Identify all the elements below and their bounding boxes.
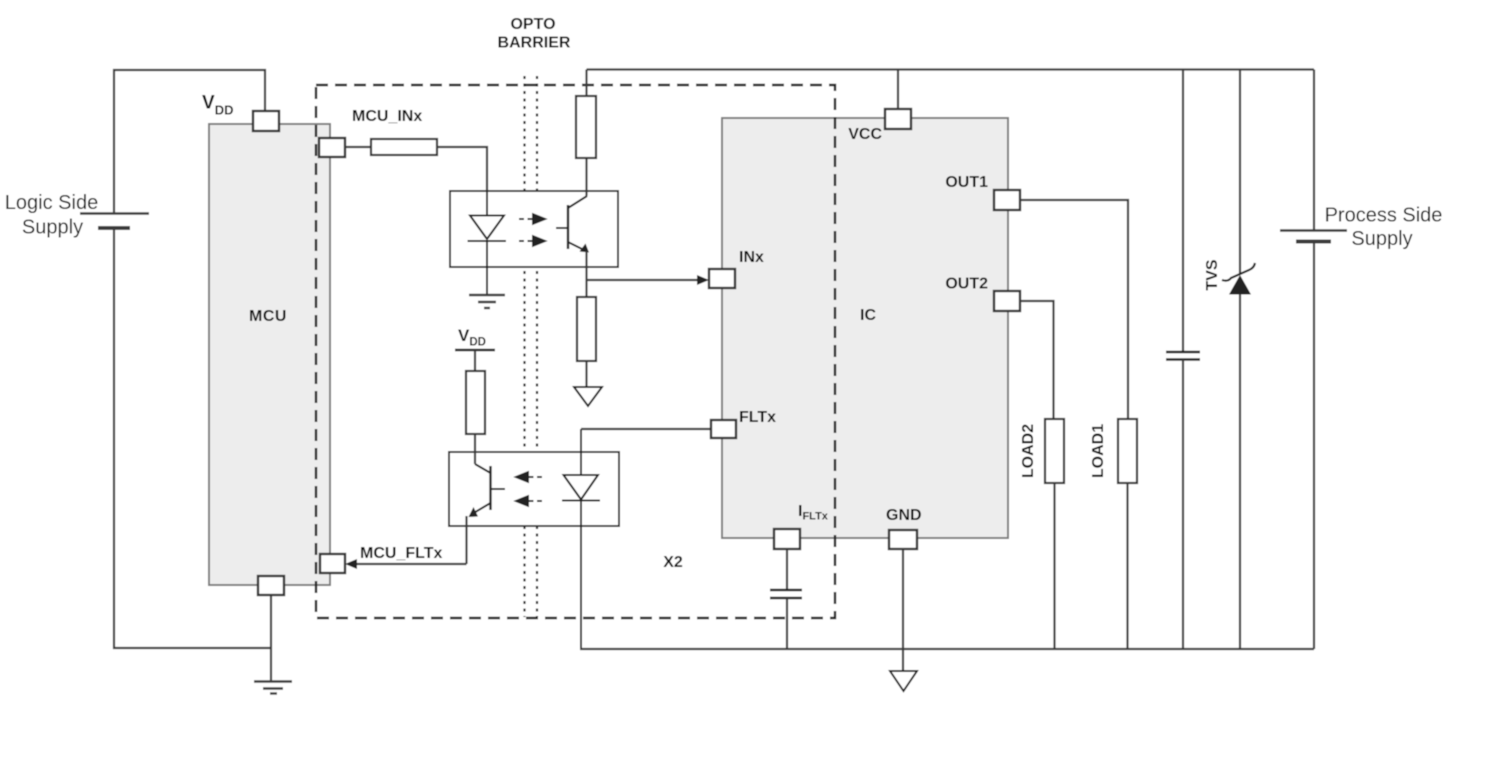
pin FLTx [711, 420, 736, 438]
wire: rail to R2 [585, 70, 587, 97]
wire: Q1 collector up to pull-up resistor [585, 158, 587, 196]
resistor R4 (emitter to gnd arrow) [577, 297, 596, 361]
battery B2 (process side) [1313, 70, 1315, 231]
resistor R2 (pull-up to VCC) [576, 96, 596, 158]
pin GND [889, 530, 917, 549]
wire: OUT2 to LOAD2 [1020, 301, 1054, 419]
bottom rail [580, 648, 1314, 650]
svg-text:INx: INx [739, 249, 764, 266]
pin IFLTx [774, 529, 800, 549]
pin VCC [885, 109, 911, 129]
svg-text:OPTO: OPTO [510, 16, 555, 33]
TVS diode [1239, 70, 1241, 275]
ground arrow (open) under GND [890, 671, 917, 691]
wire: rail to VCC pin [897, 70, 899, 110]
ground arrow (open) under R4 [574, 387, 602, 406]
svg-text:Logic Side: Logic Side [5, 192, 98, 214]
LED D1 (opto1) [468, 191, 507, 295]
svg-text:MCU_INx: MCU_INx [352, 108, 422, 125]
wire: resistor to LED anode [437, 147, 487, 192]
svg-text:X2: X2 [663, 554, 683, 571]
capacitor C2 (bulk) [1182, 70, 1184, 353]
load LOAD1 [1118, 419, 1137, 483]
top rail [587, 68, 1315, 70]
svg-text:BARRIER: BARRIER [498, 35, 571, 52]
pin VDD (MCU top) [253, 111, 279, 131]
svg-text:VCC: VCC [848, 126, 882, 143]
wire: R4 to ground arrow [585, 361, 587, 387]
opto2 light arrows [516, 472, 542, 506]
pin MCU_INx [319, 138, 345, 157]
svg-text:IC: IC [860, 307, 876, 324]
pin INx [709, 269, 735, 288]
svg-text:MCU: MCU [249, 308, 287, 325]
wire: R3 to Q2 collector [474, 434, 476, 464]
wire: battery bottom to MCU ground [113, 647, 271, 649]
wire: Q1 emitter down [585, 251, 587, 297]
resistor R3 (FLT pull-up) [466, 371, 485, 434]
wire: LOAD2 to rail [1053, 483, 1055, 649]
wire: MCU_INx pin to resistor [345, 146, 371, 148]
svg-text:FLTx: FLTx [739, 409, 776, 426]
svg-text:LOAD1: LOAD1 [1090, 424, 1107, 478]
opto barrier dotted line right [536, 76, 538, 617]
svg-text:Process Side: Process Side [1325, 205, 1443, 227]
IC block [722, 118, 1008, 538]
battery B1 long plate [80, 212, 149, 215]
wire: Q2 emitter down [465, 516, 467, 564]
wire: logic battery top vertical [113, 69, 115, 213]
pin OUT1 [994, 190, 1020, 210]
wire: logic battery bottom vertical [113, 228, 115, 649]
optocoupler U2 box [449, 452, 619, 526]
pin MCU bottom [258, 576, 284, 595]
svg-text:TVS: TVS [1204, 259, 1221, 290]
capacitor C1 (IFLTx) [786, 549, 788, 590]
wire: FLTx to LED anode [581, 428, 711, 430]
load LOAD2 [1045, 419, 1064, 483]
phototransistor Q2 (opto2) [489, 466, 491, 510]
opto barrier dotted line left [523, 76, 525, 617]
svg-text:Supply: Supply [1351, 228, 1412, 250]
battery B1 short plate [98, 226, 130, 230]
wire: LOAD1 to rail [1126, 483, 1128, 649]
svg-text:Supply: Supply [22, 217, 83, 239]
svg-text:MCU_FLTx: MCU_FLTx [360, 545, 442, 562]
LED D2 (opto2) [562, 429, 600, 650]
wire: Q2 emitter to MCU_FLTx pin with arrow [357, 563, 467, 565]
resistor R1 (series MCU_INx) [371, 139, 437, 155]
optocoupler U1 box [450, 191, 618, 267]
wire: GND pin down [902, 549, 904, 671]
ground (earth) under MCU [254, 682, 292, 694]
svg-text:OUT2: OUT2 [945, 276, 988, 293]
pin MCU_FLTx [320, 554, 345, 573]
wire: battery to VDD pin [113, 70, 265, 112]
wire: OUT1 to LOAD1 [1020, 200, 1128, 419]
svg-text:LOAD2: LOAD2 [1020, 424, 1037, 478]
phototransistor Q1 (opto1) [567, 205, 569, 249]
wire: emitter node to INx pin with arrow [587, 279, 698, 281]
MCU block [209, 124, 330, 585]
svg-text:OUT1: OUT1 [945, 174, 988, 191]
pin OUT2 [994, 291, 1020, 311]
svg-text:GND: GND [886, 507, 922, 524]
wire: MCU bottom pin to ground [270, 595, 272, 681]
ground (earth) under opto1 LED [469, 295, 505, 308]
opto1 light arrows [519, 214, 545, 246]
opto barrier dashed box [316, 85, 835, 618]
